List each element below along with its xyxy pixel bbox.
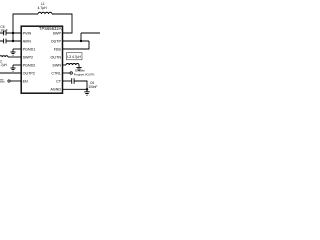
svg-text:SWP2: SWP2 <box>23 55 33 59</box>
svg-text:PGND1: PGND1 <box>23 47 36 51</box>
svg-text:TPS65632A: TPS65632A <box>39 26 62 31</box>
ground PGND1 <box>11 49 16 55</box>
svg-text:PGND2: PGND2 <box>23 63 36 67</box>
inductor L2 on SWP2 <box>0 56 8 68</box>
node junction dot AVIN rail <box>12 40 14 42</box>
node junction dot PVIN rail <box>12 32 14 34</box>
ground AGND <box>84 89 90 95</box>
capacitor C6 on CT <box>72 78 98 89</box>
svg-text:100nF: 100nF <box>88 85 97 89</box>
svg-text:FBS: FBS <box>54 47 62 51</box>
annotation Enable / Program VOUTN <box>74 68 95 76</box>
inductor L1 <box>38 2 53 14</box>
svg-text:4.7µH: 4.7µH <box>38 6 48 10</box>
wire PGND1 <box>13 48 21 50</box>
svg-text:OUTP2: OUTP2 <box>23 71 35 75</box>
ground PGND2 <box>11 65 16 71</box>
wire SWN <box>63 64 67 66</box>
wire CTRL with open terminal <box>63 72 73 74</box>
wire OUTP2 <box>0 72 21 74</box>
svg-text:OUTN: OUTN <box>51 55 62 59</box>
wire AGND <box>63 88 88 90</box>
node junction dot AGND <box>86 88 88 90</box>
inductor L3 <box>66 63 79 65</box>
capacitor C5 on PVIN <box>0 25 21 36</box>
svg-text:10µF: 10µF <box>0 29 7 33</box>
wire CT <box>63 80 72 82</box>
svg-text:L3 4.7µH: L3 4.7µH <box>67 55 81 59</box>
svg-text:Program VOUTN: Program VOUTN <box>74 72 95 76</box>
wire SWP2 <box>8 56 21 58</box>
svg-text:EN: EN <box>23 79 28 83</box>
wire input rail VIN vertical with top run to L1 <box>13 14 38 41</box>
wire FBS feedback to OUTP <box>63 41 90 49</box>
IC U1 TPS65632A body <box>21 26 62 93</box>
svg-text:OUTP: OUTP <box>51 39 62 43</box>
svg-text:Enable: Enable <box>75 68 85 72</box>
svg-text:PVIN: PVIN <box>23 31 32 35</box>
node junction dot OUTP <box>80 40 82 42</box>
svg-text:CTRL: CTRL <box>51 71 61 75</box>
svg-text:AGND: AGND <box>50 87 61 91</box>
ground at L3 <box>76 65 81 71</box>
wire L1 to SWP pin <box>52 14 72 33</box>
svg-text:SWN: SWN <box>52 63 61 67</box>
wire PGND2 <box>13 64 21 66</box>
svg-text:SWP: SWP <box>53 31 62 35</box>
svg-text:CT: CT <box>56 79 62 83</box>
svg-text:AVIN: AVIN <box>23 39 32 43</box>
wire EN with open terminal <box>0 80 21 82</box>
capacitor on AVIN <box>0 39 21 44</box>
label box L3 4.7uH <box>67 53 83 60</box>
svg-text:4.7µH: 4.7µH <box>0 63 7 67</box>
wire OUTP output node <box>63 33 101 41</box>
